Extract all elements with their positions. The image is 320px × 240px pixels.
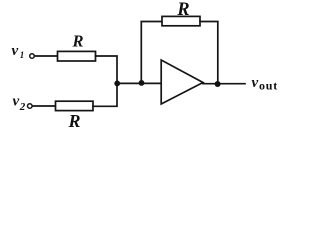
svg-text:R: R: [176, 0, 189, 20]
svg-text:v: v: [252, 75, 259, 91]
svg-text:2: 2: [19, 101, 26, 113]
svg-text:v: v: [13, 94, 20, 110]
svg-text:R: R: [68, 111, 81, 130]
svg-text:R: R: [72, 32, 84, 51]
svg-text:out: out: [259, 79, 278, 93]
svg-text:v: v: [12, 43, 19, 59]
svg-text:1: 1: [20, 50, 25, 60]
